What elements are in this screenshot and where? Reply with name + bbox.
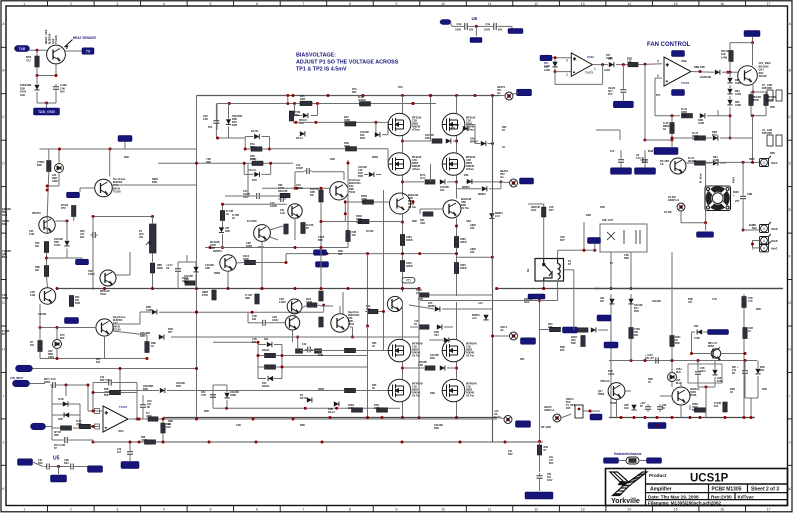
svg-text:B0B2: B0B2 (708, 346, 715, 348)
svg-text:2N5551: 2N5551 (32, 212, 41, 215)
wire (104, 336, 106, 359)
wire relay NC down (573, 270, 575, 330)
wire (248, 322, 260, 324)
transistor Q5 (39, 217, 55, 233)
label extra152_180 (152, 178, 159, 184)
wire (594, 244, 596, 250)
svg-text:1K: 1K (372, 345, 375, 348)
wire (554, 69, 556, 72)
wire x52 (51, 385, 53, 440)
label extra430_394 (430, 392, 435, 395)
svg-text:BV: BV (732, 373, 736, 375)
svg-text:Filename: M1305/200sch.sch2002: Filename: M1305/200sch.sch2002 (648, 501, 721, 506)
svg-text:BA?21: BA?21 (300, 397, 308, 400)
capacitor C58 (645, 404, 651, 412)
svg-text:B4B: B4B (756, 308, 761, 311)
transistor Q3B (443, 200, 461, 218)
label extra418_300 (418, 298, 423, 301)
wire y204 (223, 203, 288, 205)
rail 408 (213, 407, 400, 409)
svg-text:TL072: TL072 (119, 405, 128, 409)
wire (52, 466, 68, 468)
svg-text:C?K: C?K (748, 301, 753, 303)
wire (55, 92, 57, 103)
svg-text:100N: 100N (484, 29, 490, 32)
label D84 (735, 90, 741, 96)
svg-text:D5?: D5? (168, 331, 173, 334)
label r91b (356, 215, 363, 224)
svg-text:BA?21: BA?21 (251, 130, 259, 133)
wire (558, 249, 595, 251)
label r2b (300, 95, 305, 101)
wire q3b base (420, 208, 443, 210)
label Q18Blbl (466, 383, 477, 398)
wire (121, 392, 138, 394)
net label TP2L (520, 178, 534, 184)
wire (343, 172, 345, 180)
svg-text:C6S1: C6S1 (676, 369, 682, 371)
net label PRL (590, 414, 602, 420)
label R8C (692, 132, 699, 141)
label r10a (416, 289, 422, 295)
junction (412, 102, 415, 105)
diode D33 (467, 179, 472, 184)
svg-text:TAB: TAB (19, 47, 26, 51)
wire (269, 137, 271, 150)
label q5b (29, 230, 34, 236)
svg-text:BA.21: BA.21 (296, 137, 303, 140)
border tick (140, 1, 142, 6)
svg-text:B4B: B4B (152, 181, 157, 184)
diode D46 (369, 172, 374, 177)
junction (401, 252, 404, 255)
label r111 (54, 432, 61, 437)
label tp1lbl (497, 86, 506, 95)
diode D58 (307, 397, 312, 402)
junction (656, 416, 659, 419)
label vbbc (771, 247, 778, 250)
junction (294, 187, 297, 190)
junction (243, 162, 246, 165)
junction (583, 249, 586, 252)
border tick (1, 418, 6, 420)
wire y202 (345, 201, 361, 203)
junction (554, 56, 557, 59)
wire (450, 22, 452, 26)
junction (412, 201, 415, 204)
junction (455, 94, 458, 97)
junction (620, 416, 623, 419)
svg-text:0-6BU: 0-6BU (279, 301, 286, 304)
label extra600_208 (600, 206, 605, 209)
border tick (1, 46, 6, 48)
wire into QREG base (722, 71, 738, 73)
svg-text:1K: 1K (372, 387, 375, 390)
junction (554, 70, 557, 73)
svg-text:..: .. (789, 486, 791, 491)
label C5Bv2 (735, 200, 740, 203)
svg-text:5: 5 (209, 2, 211, 6)
svg-text:B4B: B4B (770, 106, 775, 109)
svg-text:B4B: B4B (762, 388, 767, 391)
junction (729, 71, 732, 74)
wire (644, 64, 646, 140)
junction (320, 220, 323, 223)
svg-text:13: 13 (581, 2, 585, 6)
wire (742, 162, 744, 193)
label c51 (243, 190, 250, 199)
label c4ev (484, 29, 490, 32)
wire (52, 403, 80, 405)
junction (335, 407, 338, 410)
resistor R7B2 (629, 328, 633, 339)
label c4ev2 (498, 29, 503, 32)
label port2lbl (10, 377, 24, 380)
svg-text:MR854: MR854 (470, 141, 478, 144)
label d61 (58, 418, 63, 421)
svg-text:LIN: LIN (139, 236, 143, 239)
wire (442, 308, 493, 310)
svg-text:BVB: BVB (232, 124, 237, 127)
border tick (93, 1, 95, 6)
label sp (0, 0, 1, 1)
svg-text:2: 2 (70, 2, 72, 6)
label r95 (352, 231, 357, 237)
svg-text:1: 1 (23, 508, 25, 512)
svg-text:47J: 47J (26, 58, 31, 62)
label extra568_262 (568, 260, 572, 266)
svg-text:5: 5 (209, 508, 211, 512)
wire (36, 76, 38, 85)
label c56b (201, 391, 206, 397)
annotation arrow (65, 40, 73, 50)
resistor R98 (212, 290, 216, 300)
junction (292, 418, 295, 421)
wire -approx (671, 382, 673, 387)
label U6 (472, 16, 478, 21)
junction (418, 287, 421, 290)
diode D61 (64, 412, 69, 417)
junction (321, 441, 324, 444)
bus x492 (492, 96, 494, 443)
ferrite bead L7 (626, 457, 639, 464)
wire (644, 150, 646, 157)
label d3b (299, 119, 307, 125)
svg-text:B0U: B0U (64, 462, 69, 465)
svg-text:TAB_GND: TAB_GND (38, 110, 56, 114)
label q6 (30, 291, 35, 297)
resistor R8D (695, 161, 706, 165)
label d8ev (604, 69, 610, 72)
port PORT3 (31, 423, 46, 430)
junction (195, 287, 198, 290)
junction (304, 407, 307, 410)
svg-text:D4B: D4B (425, 137, 430, 140)
label extra700_68 (700, 66, 705, 69)
label fan label2 (732, 177, 736, 183)
diode D3B (303, 113, 308, 118)
svg-text:UBA: UBA (466, 220, 471, 223)
svg-text:B4B: B4B (571, 342, 576, 345)
wire (87, 385, 89, 411)
svg-text:7: 7 (302, 2, 304, 6)
capacitor C36 (657, 404, 663, 412)
svg-text:B0B: B0B (754, 99, 759, 102)
wire (244, 173, 253, 175)
LED LD2 (53, 340, 62, 349)
junction (491, 335, 494, 338)
junction (347, 287, 350, 290)
wire (152, 253, 154, 262)
wire (39, 304, 41, 340)
wire (245, 148, 251, 150)
junction (146, 357, 149, 360)
wire y138 (216, 137, 245, 139)
svg-text:Ub Tier: Ub Tier (466, 395, 474, 398)
label extra770_154 (770, 152, 775, 155)
junction (36, 74, 39, 77)
svg-text:6V3: 6V3 (208, 126, 213, 129)
wire (256, 262, 286, 264)
junction (281, 354, 284, 357)
label d15 (428, 302, 436, 308)
wire (152, 273, 154, 290)
net label NBmid (118, 136, 132, 142)
wire coil return (557, 281, 559, 301)
svg-text:414B: 414B (735, 82, 741, 85)
wire (295, 115, 303, 117)
svg-text:4: 4 (763, 246, 765, 250)
junction (92, 391, 95, 394)
junction (320, 246, 323, 249)
label r2a (358, 96, 366, 102)
diode D4B (700, 113, 705, 118)
svg-text:2N5B01: 2N5B01 (213, 250, 222, 253)
svg-text:HiTsan: HiTsan (412, 129, 420, 132)
junction (252, 418, 255, 421)
label D8D (713, 156, 719, 162)
svg-text:C8: C8 (660, 162, 664, 166)
svg-text:10R: 10R (366, 308, 371, 311)
transistor Q19 (672, 387, 690, 405)
junction (269, 162, 272, 165)
wire (262, 195, 283, 197)
label c8j (547, 474, 553, 482)
wire feedback (555, 83, 603, 85)
svg-text:C6H: C6H (624, 408, 629, 410)
wire (706, 137, 713, 139)
wire (681, 222, 706, 224)
svg-text:0-62: 0-62 (280, 212, 285, 215)
svg-text:R9B: R9B (104, 389, 109, 391)
junction (538, 299, 541, 302)
resistor R_g1 (296, 349, 303, 353)
wire (540, 329, 550, 331)
label R8D (688, 157, 696, 163)
wire (120, 390, 159, 392)
label crm3 (752, 224, 757, 230)
wire (129, 252, 131, 275)
svg-text:2K: 2K (168, 423, 171, 426)
label C5B (747, 192, 752, 196)
label extra372_344 (372, 342, 377, 348)
svg-text:C4B2: C4B2 (449, 127, 456, 130)
label d41 (296, 137, 303, 140)
wire (730, 137, 753, 139)
svg-text:B4B: B4B (700, 66, 705, 69)
junction (294, 287, 297, 290)
wire (365, 311, 368, 313)
wire (554, 60, 556, 62)
wire q9 base row (262, 187, 330, 189)
label c53 (270, 202, 277, 208)
svg-text:FA NO: FA NO (664, 211, 672, 214)
pin 5 (95, 424, 100, 429)
svg-text:R?: R? (502, 129, 506, 132)
resistor R6A (550, 327, 561, 331)
diode D47 (440, 179, 445, 184)
svg-text:1R0/B: 1R0/B (460, 268, 467, 270)
capacitor C91 (620, 87, 626, 95)
svg-text:Product: Product (649, 473, 667, 478)
resistor R85 (38, 341, 42, 352)
junction (610, 287, 613, 290)
wire (162, 419, 164, 423)
junction (644, 359, 647, 362)
svg-text:BV7: BV7 (549, 209, 554, 212)
label r6242 (460, 239, 467, 244)
junction (294, 121, 297, 124)
svg-text:C41: C41 (732, 369, 737, 372)
svg-text:G: G (2, 301, 5, 305)
junction (286, 94, 289, 97)
junction (138, 441, 141, 444)
svg-text:B4B: B4B (586, 214, 591, 217)
resistor R7C (749, 95, 753, 106)
svg-text:R9B: R9B (54, 435, 59, 437)
wire (691, 332, 693, 354)
diode D63 (628, 299, 633, 304)
label u5 (53, 456, 60, 462)
label q3a (408, 194, 419, 209)
junction (261, 287, 264, 290)
label extra756_310 (756, 308, 761, 311)
svg-text:B0U: B0U (38, 462, 43, 465)
wire (292, 330, 294, 342)
wire (671, 116, 673, 123)
svg-text:BVB: BVB (360, 137, 365, 140)
border tick (419, 1, 421, 6)
wire (500, 95, 505, 97)
wire coil top (557, 250, 559, 258)
svg-text:TO126: TO126 (113, 190, 121, 193)
wire Q emitter down (55, 64, 57, 76)
label d64 (717, 378, 723, 383)
junction (751, 41, 754, 44)
label U6B (681, 59, 687, 63)
svg-text:2K0: 2K0 (560, 349, 565, 352)
junction (79, 425, 82, 428)
svg-text:B1B: B1B (430, 357, 435, 360)
svg-text:L2U: L2U (495, 215, 500, 218)
diode D67 (226, 119, 231, 124)
port TAB (15, 46, 30, 52)
junction (293, 102, 296, 105)
op-amp U16A (571, 53, 592, 76)
wire (52, 414, 80, 416)
svg-text:2V1B: 2V1B (54, 244, 60, 247)
junction (208, 441, 211, 444)
svg-text:U16d: U16d (587, 55, 594, 59)
wire (539, 481, 541, 491)
wire (216, 104, 218, 131)
wire (56, 220, 68, 222)
label r110 (374, 404, 380, 410)
svg-text:Amplifier: Amplifier (650, 487, 672, 493)
junction (162, 418, 165, 421)
capacitor C5W (642, 157, 648, 165)
label ld3 (676, 369, 682, 374)
svg-text:B0V: B0V (508, 453, 513, 456)
junction (401, 221, 404, 224)
wire relay NC (564, 269, 574, 271)
resistor R318 (581, 336, 585, 347)
wire (37, 75, 56, 77)
svg-text:2K0: 2K0 (548, 326, 553, 329)
label c4dv2 (469, 29, 474, 32)
wire (139, 312, 141, 324)
wire (680, 405, 682, 418)
wire (317, 103, 319, 115)
label d33 (464, 174, 469, 177)
svg-text:B4B2: B4B2 (372, 156, 379, 159)
svg-text:10K: 10K (634, 332, 639, 334)
wire (757, 376, 759, 398)
diode D35 (34, 85, 39, 90)
label tp2lbl (500, 170, 509, 179)
svg-text:D22: D22 (694, 325, 699, 328)
svg-text:B-C5B: B-C5B (366, 230, 374, 233)
wire (311, 115, 318, 117)
capacitor C42 (305, 347, 313, 353)
svg-text:1R0: 1R0 (470, 227, 475, 230)
diode D8C (713, 135, 718, 140)
label c30 (645, 355, 655, 360)
diode D64 (712, 370, 717, 375)
svg-text:TO126: TO126 (54, 35, 58, 44)
svg-text:B4R: B4R (37, 164, 42, 167)
LED LD1 (55, 164, 64, 173)
wire (226, 385, 228, 392)
label TS1 name (44, 29, 58, 44)
label d57b (230, 391, 239, 397)
wire (158, 418, 197, 420)
label r108 (414, 320, 420, 326)
svg-text:HiTsan: HiTsan (466, 129, 474, 132)
svg-text:MR854: MR854 (478, 193, 486, 196)
svg-text:15: 15 (674, 2, 678, 6)
svg-text:414B: 414B (713, 159, 719, 162)
junction (261, 287, 264, 290)
svg-text:12: 12 (534, 2, 538, 6)
svg-text:B0B: B0B (104, 395, 109, 397)
resistor R84 (69, 296, 73, 307)
svg-text:TL072: TL072 (585, 71, 594, 75)
svg-text:100U: 100U (700, 371, 706, 373)
svg-text:1/4W: 1/4W (681, 114, 687, 117)
svg-text:2: 2 (70, 508, 72, 512)
wire (93, 392, 110, 394)
